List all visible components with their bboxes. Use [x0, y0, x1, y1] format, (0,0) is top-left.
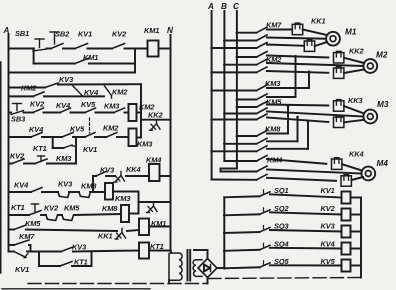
- svg-text:KM2: KM2: [103, 124, 119, 133]
- contact KV2 rowH: [44, 204, 59, 221]
- wire KV3-KK4: [106, 175, 115, 177]
- svg-text:KM3: KM3: [56, 154, 72, 163]
- contactor KM7 power contacts: [210, 21, 282, 50]
- wire KM3coil out: [137, 120, 142, 138]
- wire top rail segment A-SB1: [9, 48, 34, 50]
- scan edge artifact left: [0, 62, 2, 273]
- rectifier AC bottom lead: [207, 278, 209, 284]
- limit switch SQ3: [260, 222, 290, 233]
- wire KT1 bypass join: [72, 265, 92, 267]
- svg-text:KV4: KV4: [321, 239, 335, 248]
- coil KM4: [146, 156, 161, 182]
- svg-text:M2: M2: [376, 51, 388, 60]
- wire KM4-1 to KK4a: [267, 159, 326, 164]
- heater KK1b: [304, 40, 314, 52]
- limit switch SQ4: [260, 239, 289, 250]
- svg-text:KM1: KM1: [83, 53, 98, 62]
- svg-text:KM8: KM8: [102, 204, 118, 213]
- svg-text:KV3: KV3: [58, 180, 73, 189]
- svg-text:M4: M4: [377, 159, 389, 168]
- contact KV4 rowD: [29, 125, 43, 137]
- wire SQ5 row: [223, 267, 260, 270]
- svg-text:KV1: KV1: [83, 145, 97, 154]
- node after SB1: [32, 47, 35, 50]
- svg-text:KK1: KK1: [311, 17, 326, 26]
- wire rowE left: [9, 163, 13, 165]
- wire KV4-return: [351, 248, 362, 250]
- svg-text:KK4: KK4: [349, 150, 364, 159]
- contact KT1 rowH: [11, 203, 41, 215]
- wire row3 left: [9, 87, 46, 89]
- wire rowH b: [58, 214, 62, 216]
- wire KM5coil out: [113, 192, 139, 203]
- phase label A: [207, 2, 214, 11]
- svg-text:SB3: SB3: [11, 115, 26, 124]
- wire rowD left: [9, 136, 32, 138]
- coil KM1: [144, 26, 159, 57]
- wire KV5-KM3 row5: [96, 112, 115, 114]
- wire KV1-return: [351, 197, 362, 199]
- transformer secondary winding: [193, 260, 202, 277]
- contact KV5 row5: [81, 100, 96, 113]
- scan edge artifact bottom: [2, 288, 150, 290]
- thermal contact KK4: [114, 165, 141, 182]
- coil KV4: [321, 239, 351, 254]
- coil KM3: [129, 129, 154, 149]
- svg-text:KV3: KV3: [100, 166, 115, 175]
- wire SQ2-KV2: [270, 212, 342, 214]
- bus A (left vertical): [8, 34, 10, 252]
- contact KM2 (NC): [21, 84, 44, 97]
- svg-text:KV3: KV3: [72, 243, 87, 252]
- label KV1 floating: [83, 145, 97, 154]
- wire KK2a-M2: [344, 58, 364, 63]
- wire KT1-x76 rowE: [47, 163, 76, 165]
- heater KK3a: [334, 96, 364, 111]
- wire KV5-linked rowD: [73, 136, 85, 138]
- wire rowH a: [41, 214, 46, 216]
- wire KV4-KV5 row5: [71, 112, 86, 114]
- wire KM1 holding branch: [34, 49, 135, 73]
- limit switch SQ5: [260, 257, 290, 268]
- svg-text:KV1: KV1: [321, 186, 335, 195]
- wire KK3 row to N: [139, 201, 171, 203]
- svg-text:KV2: KV2: [10, 152, 25, 161]
- contact KV4 row5: [56, 101, 71, 113]
- wire SQ3-KV3: [270, 230, 342, 232]
- svg-text:M1: M1: [345, 28, 357, 37]
- contact KV1: [75, 30, 92, 49]
- heater KK1a: [292, 17, 325, 35]
- wire KM8-2 riser: [267, 116, 299, 142]
- svg-text:KK3: KK3: [348, 96, 363, 105]
- svg-text:SQ3: SQ3: [274, 222, 289, 231]
- coil KV3: [321, 222, 351, 238]
- wire KV4-node rowD: [42, 136, 62, 138]
- contact KV3 rowK: [61, 243, 87, 252]
- motor M2: [363, 51, 387, 73]
- wire KM2-3 to KK2b: [267, 71, 328, 73]
- wire rowJ left: [9, 244, 15, 246]
- wire rowG a: [42, 191, 58, 193]
- contact KV3 rowG: [58, 180, 73, 198]
- motor M4: [361, 159, 388, 180]
- wire KM1-N: [159, 48, 171, 50]
- wire KK4-KM4coil: [126, 175, 149, 177]
- wire KV1-KV2: [88, 48, 113, 50]
- svg-text:KM7: KM7: [19, 232, 35, 241]
- bus phase A: [211, 11, 213, 180]
- wire KV3-return: [351, 231, 362, 233]
- svg-text:KM1: KM1: [144, 26, 159, 35]
- svg-text:KM3: KM3: [115, 194, 131, 203]
- svg-text:KK2: KK2: [349, 47, 364, 56]
- svg-text:KM3: KM3: [265, 79, 281, 88]
- wire KK3b-M3: [344, 120, 364, 123]
- svg-text:KM5: KM5: [25, 219, 41, 228]
- wire KV5-return: [351, 265, 362, 267]
- wire bottom return right: [208, 278, 362, 279]
- svg-text:KM3: KM3: [137, 140, 153, 149]
- wire rowI: [26, 230, 117, 232]
- wire feeder row: [9, 72, 136, 74]
- coil KV2: [321, 204, 351, 221]
- wire KM5-1 to KK3a: [267, 105, 328, 106]
- svg-text:KM8: KM8: [265, 125, 281, 134]
- wire KV2-KT1 rowE: [24, 163, 35, 165]
- wire rowH c: [74, 214, 121, 215]
- wire KM4-N: [160, 175, 171, 177]
- wire KV2-return: [351, 214, 362, 216]
- svg-text:KV2: KV2: [44, 204, 59, 213]
- wire KM3-KM2coil: [125, 112, 129, 114]
- wire KM3-2 riser: [267, 55, 297, 97]
- linked contact KV5b rowD: [85, 133, 95, 138]
- svg-text:SQ1: SQ1: [274, 186, 289, 195]
- motor M1: [326, 28, 357, 46]
- bus phase B: [223, 11, 225, 161]
- wire row4 left: [9, 95, 34, 97]
- wire KM8-3 riser: [267, 120, 309, 149]
- wire rowI left: [9, 229, 15, 231]
- wire KM7-3 to KK1b heater: [267, 45, 304, 46]
- svg-text:KT1: KT1: [33, 144, 47, 153]
- wire KV3 bridge: [58, 83, 141, 85]
- rectifier bridge: [198, 259, 217, 278]
- contact KV2 row5: [30, 100, 45, 113]
- phase label B: [221, 2, 227, 11]
- pushbutton SB2: [50, 30, 70, 49]
- transformer core: [188, 250, 191, 281]
- contact KM2 blade from bridge: [105, 86, 129, 98]
- coil KM7: [139, 219, 166, 236]
- wire KM7-1 to KK1 heater: [267, 29, 292, 31]
- contact KV3: [45, 75, 74, 88]
- wire SQ3 row: [223, 232, 260, 235]
- thermal contact KK1: [98, 229, 126, 241]
- svg-text:KV2: KV2: [321, 204, 336, 213]
- wire rowK c: [73, 251, 139, 252]
- wire KM5-3 to KK3b: [267, 118, 328, 123]
- motor M3: [363, 100, 388, 123]
- coil KT1: [139, 242, 164, 259]
- wire rowJ drop: [29, 245, 31, 252]
- wire KK1b-M1: [315, 42, 327, 46]
- pushbutton SB1: [15, 29, 47, 51]
- svg-text:M3: M3: [377, 100, 389, 109]
- wire KM7-N: [149, 226, 171, 228]
- wire row5 left stub: [9, 112, 12, 114]
- wire SQ4 row: [223, 250, 260, 253]
- svg-text:KV1: KV1: [15, 265, 29, 274]
- heater KK2b: [334, 67, 344, 79]
- svg-text:KV2: KV2: [112, 30, 127, 39]
- bus phase C: [236, 11, 238, 169]
- contact KV1 rowK: [14, 252, 29, 275]
- contact KM3 row5: [104, 102, 125, 113]
- wire SQ5-KV5: [270, 264, 342, 266]
- limit switch SQ1: [260, 186, 289, 197]
- wire KK2 row to N: [141, 119, 171, 121]
- wire SQ1-KV1: [270, 194, 342, 197]
- wire bridge-to-KK2 vertical: [140, 84, 142, 120]
- contactor KM8 power contacts: [210, 125, 281, 153]
- heater KK4b: [341, 175, 351, 187]
- bus KV return vertical: [360, 198, 362, 278]
- wire linked-KM2 rowD: [95, 136, 107, 138]
- svg-text:KV5: KV5: [70, 125, 85, 134]
- svg-text:KT1: KT1: [11, 203, 25, 212]
- svg-text:KV4: KV4: [56, 101, 70, 110]
- node A label: [3, 26, 10, 35]
- contact KV2 rowE: [10, 152, 25, 164]
- thermal contact KK3: [147, 202, 158, 213]
- wire vertical x76: [75, 137, 77, 164]
- wire KM2coil-node: [137, 112, 142, 114]
- svg-text:KM4: KM4: [146, 156, 161, 165]
- wire SB1-SB2: [47, 48, 52, 50]
- heater KK4a: [332, 150, 364, 170]
- wire SQ4-KV4: [270, 247, 342, 250]
- contact KT1 branch: [33, 144, 76, 153]
- svg-text:KV5: KV5: [321, 257, 336, 266]
- wire KT1coil-N: [149, 250, 171, 252]
- wire KK4b-M4: [352, 177, 364, 180]
- wire KM8coil out: [129, 202, 139, 214]
- contact KM8 rowG: [79, 182, 97, 198]
- contact KT1 bypass: [60, 258, 88, 267]
- wire KM2-1 to KK2a: [267, 56, 328, 58]
- svg-text:KK4: KK4: [126, 165, 141, 174]
- wire KT1 branch drop: [53, 137, 64, 148]
- coil KV1: [321, 186, 351, 204]
- bus N (right vertical): [170, 35, 172, 252]
- wire SQ2 row: [223, 214, 260, 217]
- contactor KM5 power contacts: [210, 98, 282, 121]
- contact KV4 blade from bridge: [73, 86, 98, 97]
- svg-text:SQ2: SQ2: [274, 204, 289, 213]
- heater KK2a: [334, 47, 365, 64]
- wire KV2-KV4 row5: [44, 112, 61, 114]
- svg-text:KK1: KK1: [98, 232, 113, 241]
- wire SQ1 row: [224, 196, 259, 197]
- wire KM3-1 riser: [267, 71, 310, 89]
- contact KV4 rowG: [14, 181, 42, 193]
- wire SB2-KV1: [63, 48, 75, 50]
- wire rowF riser: [93, 176, 96, 192]
- contact KV3 rowF: [96, 166, 115, 177]
- wire KV2-KM1: [125, 48, 148, 50]
- svg-text:KM8: KM8: [81, 182, 97, 191]
- svg-text:SB2: SB2: [55, 30, 70, 39]
- coil KV5: [321, 257, 351, 272]
- wire KK1-KM7coil: [127, 230, 139, 231]
- transformer primary lead: [170, 252, 172, 254]
- wire KK4a-M4: [342, 164, 362, 170]
- wire row4: [44, 95, 104, 97]
- svg-text:KM7: KM7: [266, 21, 282, 30]
- contact KM5 rowH: [62, 204, 80, 221]
- svg-text:A: A: [207, 2, 214, 11]
- svg-text:KM2: KM2: [21, 84, 37, 93]
- heater KK3b: [334, 116, 344, 128]
- wire rowG c: [90, 191, 105, 193]
- svg-text:KV3: KV3: [59, 75, 74, 84]
- svg-text:KV5: KV5: [81, 100, 96, 109]
- node N label: [167, 26, 174, 35]
- svg-text:KV2: KV2: [30, 100, 45, 109]
- wire bottom return left dashed: [28, 283, 207, 285]
- contact KT1 rowE with T: [35, 154, 72, 164]
- thermal contact KK2: [148, 111, 163, 131]
- wire rowG b: [69, 191, 79, 193]
- contactor KM3 power contacts: [210, 79, 281, 101]
- svg-text:KV4: KV4: [14, 181, 28, 190]
- svg-text:KM2: KM2: [112, 88, 128, 97]
- contactor KM2 power contacts: [210, 52, 282, 74]
- wire KM4-3 to KK4b: [267, 178, 336, 181]
- svg-text:KM3: KM3: [104, 102, 120, 111]
- wire rowH left: [9, 214, 30, 216]
- contact KV2: [112, 30, 127, 49]
- contact KM1 (holding): [75, 53, 98, 64]
- wire KM2-2 to M2: [267, 63, 363, 66]
- coil KM2: [129, 103, 156, 122]
- phase label C: [233, 2, 240, 11]
- wire KK1a-M1: [303, 30, 327, 36]
- wire KK3a-M3: [344, 106, 364, 114]
- wire KM2-KM3coil rowD: [117, 136, 129, 138]
- wire rowG left: [9, 191, 32, 193]
- contactor KM4 power contacts: [212, 156, 283, 180]
- coil KM5: [105, 183, 131, 203]
- contact KM5 rowI: [14, 219, 41, 230]
- wire KM5-2 to M3: [267, 112, 363, 117]
- wire KM8-1 riser: [267, 105, 289, 134]
- contact KV5 rowD: [62, 125, 85, 138]
- svg-text:KV3: KV3: [321, 222, 336, 231]
- coil KM8: [102, 204, 129, 222]
- pushbutton SB3: [11, 104, 26, 124]
- transformer primary winding: [169, 253, 182, 284]
- wire KK2b-M2: [344, 70, 364, 74]
- svg-text:KV4: KV4: [29, 125, 43, 134]
- wire rectifier DC out: [217, 267, 224, 269]
- wire KM4-2 to M4: [267, 170, 362, 174]
- wire rowK a: [9, 251, 15, 253]
- rectifier AC top lead: [194, 250, 208, 259]
- wire rowK b: [27, 251, 61, 253]
- svg-text:KM5: KM5: [64, 204, 80, 213]
- svg-text:B: B: [221, 2, 227, 11]
- wire KM7-2 to M1: [267, 38, 326, 39]
- wire SB3-KV2: [24, 112, 34, 114]
- svg-text:KV1: KV1: [78, 30, 92, 39]
- bus SQ feed vertical: [223, 197, 225, 268]
- wire KT1 bypass branch: [39, 252, 92, 267]
- contact KM7 rowJ: [14, 232, 35, 245]
- svg-text:SB1: SB1: [15, 29, 29, 38]
- mech link dashed: [89, 118, 91, 133]
- svg-text:KK2: KK2: [148, 111, 163, 120]
- contact KM2 rowD: [103, 124, 119, 138]
- limit switch SQ2: [260, 204, 290, 215]
